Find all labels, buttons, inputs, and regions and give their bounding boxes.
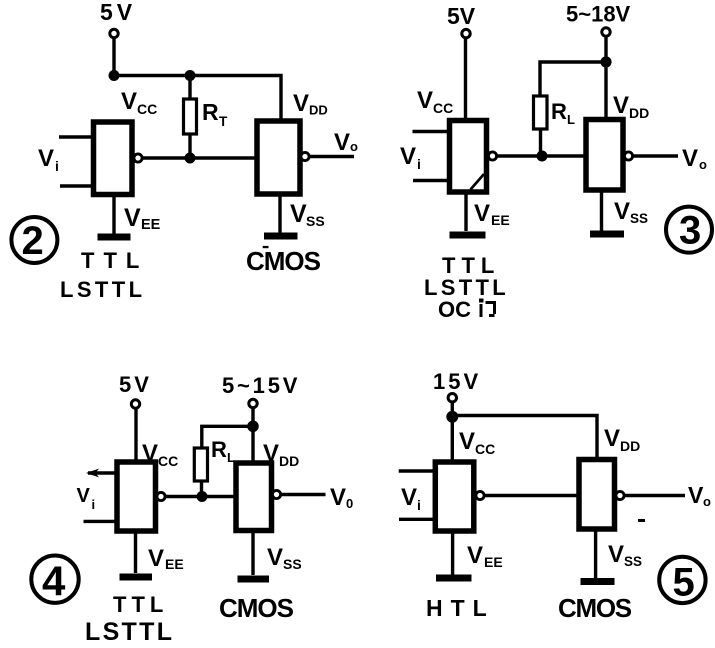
svg-text:o: o: [699, 157, 707, 172]
svg-text:V: V: [417, 87, 433, 114]
svg-text:V: V: [613, 92, 629, 119]
svg-text:V: V: [459, 428, 475, 455]
svg-text:V: V: [474, 200, 490, 227]
svg-text:T: T: [219, 114, 228, 129]
svg-text:R: R: [211, 437, 227, 462]
svg-text:R: R: [551, 99, 567, 124]
svg-text:V: V: [614, 198, 630, 225]
svg-text:V: V: [290, 200, 307, 228]
svg-text:V: V: [608, 541, 624, 568]
svg-text:SS: SS: [283, 556, 302, 572]
svg-text:SS: SS: [624, 554, 642, 569]
svg-text:V: V: [293, 90, 309, 117]
svg-text:EE: EE: [484, 554, 503, 570]
svg-text:V: V: [124, 204, 141, 232]
svg-text:TTL: TTL: [81, 248, 148, 273]
svg-text:5~15V: 5~15V: [222, 373, 300, 398]
svg-text:i: i: [92, 497, 96, 512]
svg-text:i: i: [417, 156, 421, 172]
svg-text:5: 5: [673, 561, 695, 605]
svg-text:4: 4: [42, 558, 66, 605]
svg-text:V: V: [401, 484, 417, 511]
svg-text:CMOS: CMOS: [219, 593, 294, 623]
svg-text:V: V: [77, 485, 91, 507]
svg-text:15V: 15V: [433, 369, 481, 394]
svg-text:CC: CC: [475, 441, 495, 457]
svg-text:2: 2: [22, 219, 44, 263]
svg-text:o: o: [350, 139, 358, 154]
svg-text:DD: DD: [629, 105, 649, 121]
svg-text:V: V: [38, 145, 54, 172]
svg-text:CMOS: CMOS: [558, 593, 632, 623]
svg-text:V: V: [467, 542, 483, 569]
svg-text:CC: CC: [433, 100, 453, 116]
svg-text:CC: CC: [158, 453, 178, 469]
svg-text:V: V: [334, 129, 350, 156]
svg-text:EE: EE: [491, 212, 510, 228]
svg-text:i: i: [55, 158, 59, 174]
svg-text:EE: EE: [141, 217, 161, 233]
svg-text:LSTTL: LSTTL: [60, 277, 145, 302]
svg-text:SS: SS: [306, 213, 325, 229]
svg-text:5~18V: 5~18V: [566, 2, 631, 27]
svg-text:V: V: [330, 484, 346, 511]
svg-text:HTL: HTL: [426, 595, 495, 621]
svg-text:DD: DD: [309, 103, 328, 118]
svg-text:OC: OC: [438, 297, 471, 322]
svg-text:CMOS: CMOS: [246, 246, 321, 276]
svg-text:o: o: [703, 494, 711, 509]
svg-text:V: V: [121, 88, 137, 115]
svg-text:0: 0: [346, 496, 353, 511]
svg-text:V: V: [267, 544, 283, 571]
svg-text:i: i: [417, 497, 421, 513]
svg-text:CC: CC: [137, 101, 157, 117]
svg-text:V: V: [688, 482, 704, 508]
svg-text:5V: 5V: [100, 0, 136, 25]
svg-text:DD: DD: [620, 438, 640, 454]
svg-text:LSTTL: LSTTL: [85, 618, 174, 646]
svg-text:V: V: [682, 145, 698, 172]
svg-text:DD: DD: [279, 453, 299, 469]
svg-text:R: R: [202, 99, 219, 125]
svg-text:3: 3: [679, 209, 701, 253]
svg-text:5V: 5V: [447, 3, 476, 29]
svg-text:V: V: [400, 143, 416, 170]
svg-text:L: L: [567, 112, 575, 127]
svg-text:V: V: [148, 545, 164, 572]
svg-text:TTL: TTL: [113, 592, 168, 617]
svg-text:EE: EE: [165, 556, 184, 572]
svg-text:5V: 5V: [119, 372, 152, 397]
svg-text:V: V: [604, 425, 620, 452]
svg-text:SS: SS: [630, 211, 648, 226]
